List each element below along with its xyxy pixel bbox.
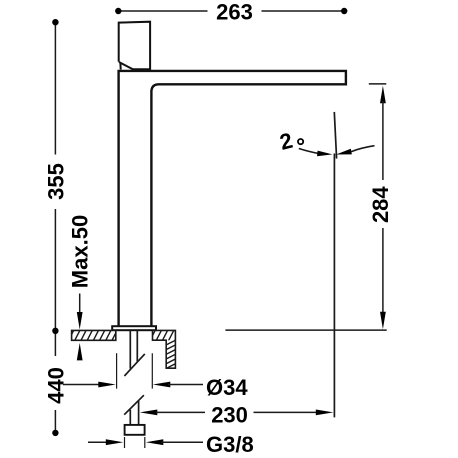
svg-text:263: 263 [216, 0, 253, 25]
dimension 230 left arrowhead [140, 410, 158, 416]
G3/8 left arrowhead [106, 439, 124, 445]
G3/8 connector nut [125, 425, 145, 435]
diameter 34 extension lines [117, 353, 153, 388]
shank break line [124, 354, 144, 376]
G3/8 left dimension line [88, 441, 108, 443]
dimension line 284 [382, 101, 384, 314]
faucet lever handle outline [119, 22, 150, 70]
dimension 230 right line [254, 411, 319, 413]
countertop right section vertical-leg hatching [165, 339, 177, 373]
svg-text:Max.50: Max.50 [68, 215, 93, 288]
countertop right section top-bar hatching [150, 329, 181, 342]
angle leader left arc [299, 149, 319, 154]
dimension 284 top tick [369, 83, 387, 85]
angle leader right arc [351, 146, 375, 152]
countertop left slab hatching [68, 329, 124, 342]
diameter 34 right dimension line [168, 384, 203, 386]
water stream vertical axis line [333, 154, 335, 418]
dimension 355/440 middle dot [52, 328, 58, 334]
Max.50 down arrowhead [77, 312, 83, 330]
supply hose right line [138, 401, 140, 424]
supply hose left line [129, 410, 131, 425]
svg-text:284: 284 [368, 186, 393, 223]
svg-text:Ø34: Ø34 [206, 375, 248, 400]
dimension 230 left line [156, 411, 205, 413]
angle leader right arrowhead [336, 149, 352, 155]
G3/8 extension ticks [125, 437, 145, 448]
dimension line 355/440 [54, 22, 56, 433]
G3/8 right arrowhead [146, 439, 164, 445]
dimension line 263 [118, 10, 344, 12]
dimension 284 down arrowhead [380, 312, 386, 330]
threaded shank left line [129, 330, 131, 368]
angle label degree ring [298, 139, 303, 144]
dimension 355 top end dot [52, 19, 58, 25]
dimension 284 up arrowhead [380, 86, 386, 104]
dimension 440 bottom end dot [52, 430, 58, 436]
countertop surface reference line [225, 329, 386, 331]
base flange escutcheon [112, 326, 156, 330]
Max.50 extension line [79, 294, 81, 315]
water stream tilted line [334, 112, 336, 159]
threaded shank right line [136, 330, 138, 361]
dimension 230 right arrowhead [316, 410, 334, 416]
svg-text:G3/8: G3/8 [206, 432, 254, 457]
diameter 34 right arrowhead [153, 382, 171, 388]
countertop left slab section outline [72, 330, 116, 340]
faucet body column and spout outline [119, 71, 346, 326]
svg-text:440: 440 [43, 367, 68, 404]
angle leader left arrowhead [317, 151, 332, 157]
dimension 263 left end dot [115, 8, 121, 14]
diameter 34 left dimension line [63, 384, 100, 386]
dimension 263 right end dot [341, 8, 347, 14]
G3/8 right dimension line [161, 441, 203, 443]
svg-text:355: 355 [43, 163, 68, 200]
Max.50 up arrowhead [77, 343, 83, 361]
svg-text:230: 230 [211, 403, 248, 428]
countertop right section outline [153, 330, 176, 368]
diameter 34 left arrowhead [98, 382, 116, 388]
hose break line [124, 395, 144, 415]
